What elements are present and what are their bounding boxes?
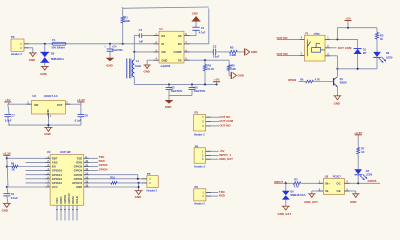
svg-text:R4: R4 [208, 63, 212, 67]
svg-text:GND: GND [40, 72, 46, 76]
svg-text:SCLK: SCLK [75, 196, 79, 204]
svg-text:P3: P3 [195, 111, 199, 115]
svg-text:GND: GND [334, 102, 340, 106]
svg-text:GND_EXT: GND_EXT [219, 157, 233, 161]
svg-text:0.1uF: 0.1uF [11, 196, 18, 200]
svg-text:C1: C1 [201, 26, 205, 30]
svg-text:LM1117-3.3: LM1117-3.3 [44, 94, 58, 98]
svg-text:IN-: IN- [325, 189, 329, 193]
svg-text:relay: relay [314, 31, 321, 35]
svg-text:SMBJ33CA: SMBJ33CA [51, 58, 65, 61]
svg-text:OPEN: OPEN [288, 78, 296, 82]
svg-text:GPIO4: GPIO4 [99, 167, 108, 171]
svg-text:ESP-12F: ESP-12F [60, 150, 71, 154]
svg-text:SS: SS [178, 34, 182, 38]
svg-text:PC817: PC817 [333, 175, 341, 179]
svg-text:U1: U1 [159, 27, 163, 31]
svg-text:D2: D2 [51, 52, 55, 56]
svg-text:U2: U2 [32, 94, 36, 98]
svg-text:R3: R3 [230, 45, 234, 49]
svg-text:P5: P5 [147, 172, 151, 176]
svg-text:GND: GND [76, 185, 82, 189]
svg-text:P4: P4 [195, 144, 199, 148]
svg-text:Header 3: Header 3 [194, 133, 205, 136]
svg-text:+3.3V: +3.3V [77, 98, 86, 102]
svg-text:OUT NC: OUT NC [219, 115, 231, 119]
svg-text:L1: L1 [136, 59, 140, 63]
svg-text:+3.3V: +3.3V [3, 151, 12, 155]
svg-text:R2: R2 [380, 33, 384, 37]
svg-text:1K: 1K [361, 151, 364, 154]
svg-text:OUT: OUT [57, 103, 63, 107]
svg-text:U3: U3 [325, 175, 329, 179]
svg-text:GND: GND [192, 12, 198, 16]
svg-text:1K: 1K [380, 38, 383, 41]
svg-text:R1: R1 [124, 15, 128, 19]
svg-text:GND: GND [165, 105, 171, 109]
svg-text:P6: P6 [195, 185, 199, 189]
svg-text:GND: GND [237, 74, 243, 78]
svg-text:+5V: +5V [214, 78, 221, 82]
svg-text:P1: P1 [305, 31, 309, 35]
svg-text:10uF/50V: 10uF/50V [171, 89, 183, 93]
svg-text:Header 3: Header 3 [194, 165, 205, 168]
svg-text:GND: GND [44, 132, 50, 136]
svg-text:RXD: RXD [219, 194, 225, 198]
svg-text:VCC: VCC [52, 185, 58, 189]
svg-text:14K: 14K [231, 68, 236, 71]
svg-text:+3.3V: +3.3V [354, 131, 363, 135]
svg-text:M7: M7 [363, 52, 367, 55]
svg-text:R10: R10 [110, 176, 115, 179]
svg-text:C7: C7 [139, 28, 143, 32]
svg-text:Header 2: Header 2 [147, 189, 158, 192]
svg-text:OUT NO: OUT NO [277, 52, 289, 56]
svg-text:FB: FB [178, 59, 182, 63]
svg-text:GND: GND [106, 63, 112, 67]
svg-text:1K: 1K [12, 169, 15, 172]
svg-text:4.7uF: 4.7uF [199, 32, 206, 35]
svg-text:EN: EN [178, 42, 182, 46]
svg-text:IN+: IN+ [325, 181, 330, 185]
svg-text:51.1K: 51.1K [208, 68, 215, 71]
svg-text:10uH: 10uH [135, 65, 141, 68]
svg-text:LED0: LED0 [366, 174, 373, 177]
svg-text:GND_EXT: GND_EXT [304, 200, 318, 204]
svg-text:0.1uF: 0.1uF [5, 119, 12, 122]
svg-text:GND: GND [251, 50, 257, 54]
svg-text:Header 2: Header 2 [11, 52, 23, 56]
svg-text:+5V: +5V [345, 17, 352, 21]
svg-text:VIN: VIN [34, 103, 39, 107]
svg-text:RS: RS [161, 34, 165, 38]
svg-text:GPIO5: GPIO5 [368, 179, 377, 183]
svg-text:P2: P2 [11, 35, 15, 39]
svg-text:SW: SW [161, 50, 166, 54]
svg-text:100K: 100K [124, 20, 130, 23]
svg-text:C3: C3 [213, 45, 217, 49]
svg-text:+5V: +5V [5, 98, 12, 102]
svg-text:F1: F1 [52, 38, 56, 42]
svg-text:4.7K: 4.7K [294, 186, 299, 189]
svg-text:LED0: LED0 [386, 56, 393, 59]
svg-text:S8050: S8050 [340, 81, 348, 84]
svg-text:1.0uF: 1.0uF [213, 55, 220, 58]
svg-text:4.7K: 4.7K [315, 79, 320, 82]
svg-text:SMBJ6.5CA: SMBJ6.5CA [290, 193, 305, 197]
svg-text:COMP: COMP [174, 50, 182, 54]
svg-text:10uF/50V: 10uF/50V [194, 89, 206, 93]
svg-text:IN: IN [161, 42, 164, 46]
svg-text:1nF: 1nF [139, 41, 144, 44]
svg-text:0.1uF: 0.1uF [75, 119, 82, 122]
svg-text:OUT NO: OUT NO [219, 124, 231, 128]
svg-text:OE: OE [337, 189, 341, 193]
svg-text:10uF/50V: 10uF/50V [112, 49, 123, 52]
svg-text:GND: GND [135, 195, 141, 199]
svg-text:GND: GND [2, 208, 8, 212]
svg-text:mp2459: mp2459 [161, 64, 171, 68]
svg-text:4.99K: 4.99K [230, 54, 237, 57]
svg-text:OC: OC [336, 181, 340, 185]
svg-text:GND: GND [144, 69, 150, 73]
svg-text:GND_EXT: GND_EXT [278, 212, 292, 216]
svg-text:OUT COM: OUT COM [338, 46, 352, 50]
svg-text:OUT NC: OUT NC [277, 36, 289, 40]
svg-text:50V 500mA: 50V 500mA [52, 47, 66, 50]
svg-text:GND: GND [350, 200, 356, 204]
svg-text:R5: R5 [231, 64, 235, 68]
svg-text:GND: GND [161, 59, 167, 63]
svg-text:GND: GND [29, 58, 35, 62]
svg-text:U4: U4 [47, 150, 51, 154]
svg-text:Header 2: Header 2 [194, 203, 205, 206]
